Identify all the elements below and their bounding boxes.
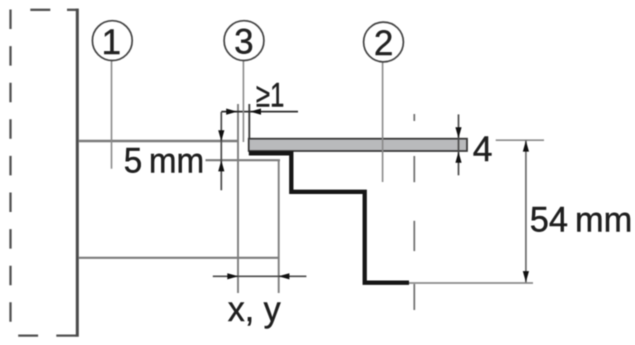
svg-text:1: 1 xyxy=(102,23,121,62)
dimension 5 mm xyxy=(220,112,222,190)
hob body outline xyxy=(249,153,409,282)
wall top dashed edge xyxy=(30,9,78,11)
cutout lower edge / x,y extension line xyxy=(278,160,280,294)
dimension x, y xyxy=(213,275,307,277)
hob bottom reference thin line xyxy=(409,282,533,284)
svg-text:54 mm: 54 mm xyxy=(530,200,633,240)
dimension >=1 xyxy=(221,111,298,113)
cutout upper edge / x,y extension line xyxy=(237,104,239,293)
dimension 4 (glass thickness) xyxy=(458,114,460,175)
callout circle 3 xyxy=(224,21,264,61)
wall left dashed edge xyxy=(9,10,11,323)
svg-text:x, y: x, y xyxy=(228,289,281,329)
hob glass panel xyxy=(249,139,467,151)
cabinet side panel solid line xyxy=(76,9,79,337)
leader for callout 3 xyxy=(242,60,244,142)
svg-text:4: 4 xyxy=(473,129,493,169)
worktop top surface line xyxy=(79,140,238,142)
svg-text:5 mm: 5 mm xyxy=(124,140,205,180)
callout circle 1 xyxy=(92,21,132,61)
svg-text:3: 3 xyxy=(234,23,253,62)
svg-text:≥1: ≥1 xyxy=(256,77,285,115)
svg-text:2: 2 xyxy=(374,24,393,63)
wall bottom dashed edge xyxy=(18,334,78,336)
callout circle 2 xyxy=(364,22,404,62)
centre dash line of hob xyxy=(413,114,415,310)
glass left edge extension line xyxy=(248,104,250,140)
leader for callout 2 xyxy=(382,62,384,183)
leader for callout 1 xyxy=(111,60,113,169)
worktop bottom line xyxy=(79,257,279,259)
dimension 54 mm xyxy=(496,139,544,141)
worktop rabbet ledge line with 5mm leader xyxy=(206,159,281,161)
